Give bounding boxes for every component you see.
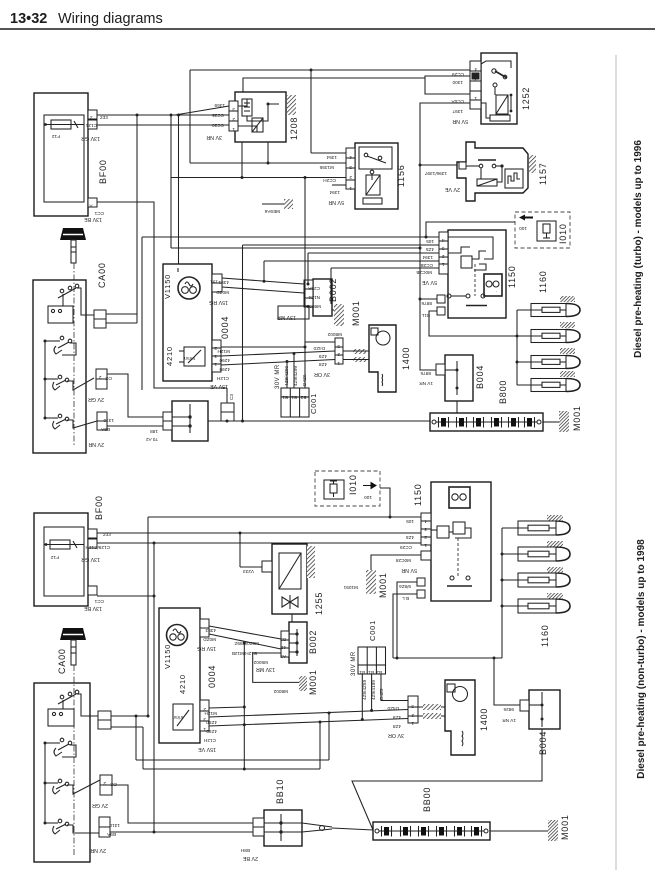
wire CC to BB10 xyxy=(107,374,164,417)
connector mid CA00 (lower) xyxy=(98,711,111,720)
svg-text:100: 100 xyxy=(519,226,527,231)
svg-text:1396/1397: 1396/1397 xyxy=(424,171,447,176)
wire 1208 down to CC2H wire xyxy=(241,142,243,178)
glow indicator (lower 1150) xyxy=(449,487,470,508)
feed run to B004 (lower) xyxy=(393,657,502,659)
key dash-dot axis xyxy=(73,263,75,445)
boxed label 13V MR xyxy=(278,306,309,319)
wire M12H xyxy=(221,346,305,348)
glow plug bus xyxy=(516,310,518,385)
svg-text:B1: B1 xyxy=(291,395,297,400)
ignition switch CA00 xyxy=(33,280,86,453)
svg-text:1: 1 xyxy=(203,727,206,732)
svg-text:I010: I010 xyxy=(348,474,358,495)
relay 1156 xyxy=(355,143,398,209)
glow plug 1 xyxy=(531,304,566,317)
page right edge line xyxy=(615,55,617,870)
svg-text:15V VE: 15V VE xyxy=(210,383,228,389)
contact bar 1157 xyxy=(478,159,496,161)
svg-text:C29A: C29A xyxy=(307,286,320,291)
svg-text:4Z5: 4Z5 xyxy=(426,247,434,252)
svg-text:3V OR: 3V OR xyxy=(388,732,404,738)
svg-text:M12H: M12H xyxy=(204,711,217,716)
svg-text:M0ZD: M0ZD xyxy=(216,290,229,295)
svg-text:B.L: B.L xyxy=(402,596,409,601)
pins 0004 top (lower) xyxy=(200,619,209,628)
svg-text:ME9A6: ME9A6 xyxy=(264,209,280,214)
svg-text:4353: 4353 xyxy=(205,628,216,633)
wire 105 (lower) xyxy=(148,516,421,518)
svg-text:B002: B002 xyxy=(308,630,318,654)
svg-text:M001: M001 xyxy=(351,300,361,326)
svg-text:Diesel pre-heating (non-turbo): Diesel pre-heating (non-turbo) - models … xyxy=(636,539,647,779)
svg-text:4351: 4351 xyxy=(218,280,229,285)
svg-text:I010: I010 xyxy=(558,223,568,244)
svg-text:BF00: BF00 xyxy=(98,159,108,184)
svg-text:1V NR: 1V NR xyxy=(502,718,516,723)
svg-text:M0ZD: M0ZD xyxy=(203,637,216,642)
relay contacts (lower 1150) xyxy=(437,526,449,538)
connector 1310 xyxy=(97,412,107,421)
fuse F12 (lower) xyxy=(50,540,70,549)
pins 0004 bottom xyxy=(212,340,221,372)
svg-text:1V NR: 1V NR xyxy=(419,381,433,386)
wire 15VRG up to 1150 pin4 xyxy=(263,261,265,281)
svg-text:B9A: B9A xyxy=(100,427,110,432)
svg-text:0004: 0004 xyxy=(220,316,230,339)
glow plug 2 (lower) xyxy=(518,547,556,561)
svg-text:4Z99: 4Z99 xyxy=(206,729,217,734)
wire 1354 up to feed xyxy=(310,70,312,153)
svg-text:1400: 1400 xyxy=(401,347,411,370)
fuse box BF00 (lower) xyxy=(34,513,88,606)
svg-text:F12: F12 xyxy=(52,134,60,139)
svg-text:C129/C12H: C129/C12H xyxy=(86,545,111,550)
svg-text:2: 2 xyxy=(349,175,352,180)
svg-text:3: 3 xyxy=(442,246,445,251)
in-line fuse I010 (lower) xyxy=(315,471,380,506)
connector B002 xyxy=(313,279,332,316)
long wire CC2B xyxy=(264,260,439,262)
svg-text:1: 1 xyxy=(474,96,477,101)
connector C001 pins (lower) xyxy=(408,696,418,723)
svg-text:1: 1 xyxy=(214,362,217,367)
wire 1397 to 1157 xyxy=(420,164,457,166)
pins 1150 bottom xyxy=(437,295,445,303)
relay unit 1150 (lower) xyxy=(431,482,491,601)
glow plug 1 (lower) xyxy=(518,521,556,535)
long wire 1394 xyxy=(308,252,439,254)
table drops (lower) xyxy=(361,674,363,720)
svg-text:3: 3 xyxy=(349,165,352,170)
control unit 1208 xyxy=(235,92,286,142)
svg-text:2: 2 xyxy=(214,346,217,351)
svg-text:3: 3 xyxy=(232,107,235,112)
connector mid CA00 xyxy=(94,310,106,319)
switch group 1 (lower) xyxy=(60,695,64,699)
resistor inside 1208 xyxy=(252,118,263,132)
wires CA00 mid connector xyxy=(106,313,137,315)
svg-text:M001: M001 xyxy=(308,669,318,695)
svg-text:4: 4 xyxy=(424,519,427,524)
wire I010 to 105 xyxy=(426,222,515,237)
svg-text:2: 2 xyxy=(232,117,235,122)
svg-text:70 A2: 70 A2 xyxy=(146,437,158,442)
svg-text:C12H: C12H xyxy=(204,738,216,743)
svg-text:3: 3 xyxy=(424,527,427,532)
pins 1150 bottom (lower) xyxy=(417,578,425,586)
timer unit 0004 (lower) xyxy=(159,608,200,743)
svg-text:233: 233 xyxy=(100,115,108,120)
warning lamp V1150 xyxy=(178,277,200,299)
long wire M0C2B xyxy=(331,267,439,269)
wire BB10 to busbar (lower) xyxy=(302,823,332,827)
ground M001 (mid lower) xyxy=(371,555,421,570)
pins 0004 bottom (lower) xyxy=(200,700,209,731)
wires 0004 to B002 (lower) xyxy=(209,626,281,639)
glow plug 4 (lower) xyxy=(518,599,556,613)
svg-text:2: 2 xyxy=(442,254,445,259)
connector CC 2V GR xyxy=(96,369,107,379)
resistor 1157 xyxy=(477,179,497,186)
svg-text:4Z90: 4Z90 xyxy=(206,720,217,725)
svg-text:3V NR: 3V NR xyxy=(206,134,222,140)
wire jumper 1300/CC0A xyxy=(425,76,470,94)
svg-text:1150: 1150 xyxy=(507,265,517,288)
relay contacts 1150 xyxy=(448,237,493,259)
svg-text:B1: B1 xyxy=(368,670,374,675)
svg-text:188: 188 xyxy=(150,429,158,434)
svg-text:CA00: CA00 xyxy=(97,262,107,288)
fuel heater 1400 (lower) xyxy=(445,680,475,755)
svg-text:1157: 1157 xyxy=(538,162,548,185)
wire branch to 1208 pin3 xyxy=(175,106,229,115)
svg-text:2V BE: 2V BE xyxy=(243,855,258,861)
svg-text:105: 105 xyxy=(406,519,414,524)
ignition switch CA00 (lower) xyxy=(34,683,90,862)
svg-text:Diesel pre-heating (turbo) - m: Diesel pre-heating (turbo) - models up t… xyxy=(633,140,644,358)
switch contacts group 3 xyxy=(58,375,62,379)
svg-text:3: 3 xyxy=(214,354,217,359)
svg-text:5V NR: 5V NR xyxy=(452,118,468,124)
svg-text:4210: 4210 xyxy=(178,674,187,694)
svg-text:V233: V233 xyxy=(243,569,254,574)
wires inside 1208 xyxy=(238,99,247,106)
svg-text:8876: 8876 xyxy=(420,371,431,376)
svg-text:3V OR: 3V OR xyxy=(314,371,330,377)
wire vertical to V1150 lamp xyxy=(178,115,180,264)
svg-text:4Z8: 4Z8 xyxy=(319,362,327,367)
wire 4290 xyxy=(221,351,335,356)
junction box B004 (lower) xyxy=(529,690,560,729)
svg-text:8876: 8876 xyxy=(421,301,432,306)
fuse F12 xyxy=(51,120,71,129)
svg-text:1394: 1394 xyxy=(422,255,433,260)
svg-text:M12H: M12H xyxy=(217,349,230,354)
wire 4299 xyxy=(221,360,335,366)
warning lamp V1150 (lower) xyxy=(167,625,188,646)
svg-text:V1150: V1150 xyxy=(163,274,172,299)
svg-text:D4Z0: D4Z0 xyxy=(313,346,325,351)
svg-text:1: 1 xyxy=(337,361,340,366)
wire BF00 C121 to 1208 pin1 xyxy=(97,124,229,126)
glow plug 4 xyxy=(531,379,566,392)
fuse box BF00 xyxy=(34,93,88,216)
wire C129 xyxy=(97,542,421,544)
svg-text:4Z9: 4Z9 xyxy=(393,715,401,720)
svg-text:3: 3 xyxy=(411,704,414,709)
svg-text:1156: 1156 xyxy=(396,164,406,187)
glow plug 3 xyxy=(531,356,566,369)
hatch mark 1208 xyxy=(287,95,296,115)
svg-text:1310: 1310 xyxy=(103,418,114,423)
connector pins 1156 xyxy=(346,148,355,189)
big feed wire to B004 xyxy=(171,247,421,249)
svg-text:105: 105 xyxy=(426,239,434,244)
svg-text:13V GR: 13V GR xyxy=(81,556,100,562)
switch group 4 (lower) xyxy=(58,819,62,823)
svg-text:D4Z0: D4Z0 xyxy=(302,374,307,386)
wire V233 xyxy=(240,566,262,568)
switch contacts group 1 xyxy=(60,289,64,293)
svg-text:1394: 1394 xyxy=(329,190,340,195)
wire M0C2B down to ground xyxy=(330,268,332,304)
relay coil inside 1208 xyxy=(242,99,252,116)
svg-text:CC2H: CC2H xyxy=(323,178,336,183)
svg-text:13V BE: 13V BE xyxy=(84,605,102,611)
relay diode unit 1255 xyxy=(272,544,307,614)
svg-text:0004: 0004 xyxy=(207,665,217,688)
svg-text:M8002: M8002 xyxy=(327,332,342,337)
wire 1208 down to 1157 feed xyxy=(267,142,269,163)
svg-text:5V NR: 5V NR xyxy=(401,567,417,573)
svg-text:2: 2 xyxy=(424,535,427,540)
wire 13V BE from BF00 xyxy=(97,202,227,388)
svg-text:M5002: M5002 xyxy=(253,660,268,665)
connector pin 1157 xyxy=(459,162,466,169)
header rule xyxy=(0,28,655,30)
svg-text:tr/mn: tr/mn xyxy=(184,356,195,361)
svg-text:1160: 1160 xyxy=(540,624,550,647)
svg-text:3: 3 xyxy=(474,77,477,82)
svg-text:30V MR: 30V MR xyxy=(351,651,357,676)
sensor box 1157 xyxy=(505,169,523,188)
in-line fuse I010 xyxy=(515,212,570,248)
svg-text:15V RG: 15V RG xyxy=(209,299,228,305)
svg-text:M0C2B: M0C2B xyxy=(416,270,432,275)
svg-text:1310: 1310 xyxy=(109,823,120,828)
svg-text:CA00: CA00 xyxy=(57,648,67,674)
svg-text:15V VE: 15V VE xyxy=(198,746,216,752)
svg-text:13V MR: 13V MR xyxy=(256,666,275,672)
connector C001 pins xyxy=(335,338,343,364)
svg-text:M001: M001 xyxy=(560,814,570,840)
timer unit 0004 xyxy=(163,264,212,381)
long wire 105 xyxy=(142,236,439,238)
wire 1150 to B004 xyxy=(420,298,437,300)
wire B004 to busbar xyxy=(456,401,458,413)
svg-text:5V NR: 5V NR xyxy=(328,199,344,205)
connector C3 xyxy=(226,388,228,403)
ignition key (lower) xyxy=(60,628,86,640)
connector pins 1252 xyxy=(470,61,481,109)
svg-text:9/8Z6: 9/8Z6 xyxy=(399,584,411,589)
svg-text:4: 4 xyxy=(349,155,352,160)
svg-text:CC1: CC1 xyxy=(94,211,104,216)
svg-text:100: 100 xyxy=(364,495,372,500)
svg-text:B004: B004 xyxy=(475,365,485,389)
svg-text:M8002: M8002 xyxy=(273,689,288,694)
switch group 3 (lower) xyxy=(58,779,62,783)
svg-text:M0C28: M0C28 xyxy=(395,558,411,563)
connector CC1 (lower BF00) xyxy=(88,586,97,595)
svg-text:M1091: M1091 xyxy=(343,585,358,590)
glow indicator 1150 xyxy=(484,274,502,296)
svg-text:2V GR: 2V GR xyxy=(88,396,104,402)
contact terminals 1150 xyxy=(466,294,470,298)
wires 1150 bottom pins (lower) xyxy=(397,582,417,658)
svg-text:3: 3 xyxy=(203,717,206,722)
svg-text:CC25: CC25 xyxy=(212,113,224,118)
svg-text:2: 2 xyxy=(99,375,102,380)
svg-text:Wiring diagrams: Wiring diagrams xyxy=(58,11,163,27)
junction box B004 xyxy=(445,355,473,401)
svg-text:4290: 4290 xyxy=(219,358,230,363)
svg-text:B8H: B8H xyxy=(241,848,250,853)
switch inside 1156 xyxy=(359,147,392,169)
svg-text:2: 2 xyxy=(103,781,106,786)
ground M001 (BB00) xyxy=(490,830,548,832)
svg-text:1: 1 xyxy=(442,262,445,267)
wire 233 long to 1150 xyxy=(97,532,421,534)
arrow I010 xyxy=(519,215,533,221)
wire 1150 to glow plugs xyxy=(429,311,517,336)
svg-text:C001: C001 xyxy=(368,620,377,641)
glow plug 3 (lower) xyxy=(518,573,556,587)
svg-text:1252: 1252 xyxy=(521,87,531,110)
svg-text:2: 2 xyxy=(90,116,93,121)
wire B004 to busbar (lower) xyxy=(352,729,542,830)
wire 0004 to B002 pin2 xyxy=(222,287,304,293)
heater unit 1157 xyxy=(457,142,528,201)
svg-text:1: 1 xyxy=(349,186,352,191)
relay coil 1252 xyxy=(496,95,508,114)
svg-text:B004: B004 xyxy=(538,731,548,755)
relay unit 1150 xyxy=(448,230,506,318)
svg-text:B9A: B9A xyxy=(106,832,116,837)
connector CC1 on BF00 xyxy=(88,198,97,207)
wire bundles to 1400 (lower) xyxy=(418,706,445,708)
svg-text:3: 3 xyxy=(337,344,340,349)
svg-text:30V MR: 30V MR xyxy=(275,364,281,389)
svg-text:1160: 1160 xyxy=(538,270,548,293)
wire bundles to 1400 xyxy=(353,349,366,354)
wire 1255 to B002 xyxy=(291,614,293,622)
wire pair jog (lower) xyxy=(136,759,329,761)
svg-text:BB00: BB00 xyxy=(422,787,432,812)
svg-text:CC2B: CC2B xyxy=(420,263,433,268)
svg-text:15V RG: 15V RG xyxy=(197,645,216,651)
svg-text:2V GR: 2V GR xyxy=(92,802,108,808)
svg-text:C121: C121 xyxy=(85,123,97,128)
switch group 2 (lower) xyxy=(60,738,64,742)
wire vertical 171 to CC2H xyxy=(170,115,172,248)
svg-text:2: 2 xyxy=(411,713,414,718)
svg-text:CC29: CC29 xyxy=(400,545,412,550)
wire B002 C29A up to 1150 xyxy=(307,253,309,284)
svg-text:5V VE: 5V VE xyxy=(422,279,437,285)
svg-text:BF00: BF00 xyxy=(94,495,104,520)
svg-text:1: 1 xyxy=(411,721,414,726)
svg-text:1300: 1300 xyxy=(452,80,463,85)
svg-text:B2: B2 xyxy=(300,395,306,400)
wire vertical 190 to 1156 xyxy=(189,70,191,163)
svg-text:C12H: C12H xyxy=(217,376,229,381)
wire 1310 to BB10 (lower) xyxy=(110,831,253,833)
svg-text:1150: 1150 xyxy=(413,483,423,506)
connector pins 1208 xyxy=(229,101,238,131)
ground tag ME9A6 xyxy=(262,203,284,205)
svg-text:4299: 4299 xyxy=(219,367,230,372)
svg-text:4210: 4210 xyxy=(165,346,174,366)
fuse symbol I010 xyxy=(537,221,556,241)
switch contacts group 4 xyxy=(58,414,62,418)
switch contacts group 2 xyxy=(60,336,64,340)
wires mid connector (lower) xyxy=(111,715,148,717)
wire M1395 from 190 xyxy=(190,162,346,164)
pins 1150 (lower) xyxy=(421,513,431,545)
svg-text:4: 4 xyxy=(474,67,477,72)
wire 13V BE down xyxy=(97,595,154,597)
svg-text:V1150: V1150 xyxy=(163,644,172,669)
svg-text:2: 2 xyxy=(337,352,340,357)
svg-text:1400: 1400 xyxy=(479,708,489,731)
ground M001 (B800) xyxy=(543,421,559,423)
svg-text:4Z5: 4Z5 xyxy=(406,535,414,540)
wires 0004 to C001 (lower) xyxy=(209,707,244,708)
svg-text:2V NR: 2V NR xyxy=(90,847,106,853)
svg-text:151: 151 xyxy=(210,280,218,285)
wire CC2H long xyxy=(171,177,346,179)
svg-text:M001: M001 xyxy=(378,572,388,598)
ground M001 (B002) xyxy=(334,304,344,326)
svg-text:M0Z0/V99Z: M0Z0/V99Z xyxy=(234,641,259,646)
svg-text:B800: B800 xyxy=(498,380,508,404)
wire 0004 to B002 pin1 xyxy=(222,278,304,284)
wire D4Z0 loop xyxy=(305,342,335,347)
svg-text:C001: C001 xyxy=(309,393,318,414)
connector CC 2V GR (lower) xyxy=(100,775,112,785)
diode 1255 xyxy=(282,597,298,607)
connector B002 (lower) xyxy=(289,622,307,663)
relay 1252 xyxy=(481,53,517,124)
wire BB10 to busbar xyxy=(208,420,430,422)
svg-text:4: 4 xyxy=(442,238,445,243)
connector 1310 (lower) xyxy=(99,817,110,827)
pins 1150 xyxy=(439,232,448,274)
wire 1397 main vertical xyxy=(420,103,470,370)
svg-text:CC20: CC20 xyxy=(212,123,224,128)
svg-text:4B: 4B xyxy=(280,645,286,650)
svg-text:B3: B3 xyxy=(280,637,286,642)
connector 233 (lower BF00) xyxy=(88,529,97,538)
svg-text:4Z9: 4Z9 xyxy=(319,354,327,359)
wire 1310 to BB10 xyxy=(107,425,164,427)
connector 233 on BF00 xyxy=(88,110,97,119)
junction box BB10 xyxy=(172,401,208,441)
svg-text:13V BE: 13V BE xyxy=(84,216,102,222)
svg-text:1397: 1397 xyxy=(452,109,463,114)
